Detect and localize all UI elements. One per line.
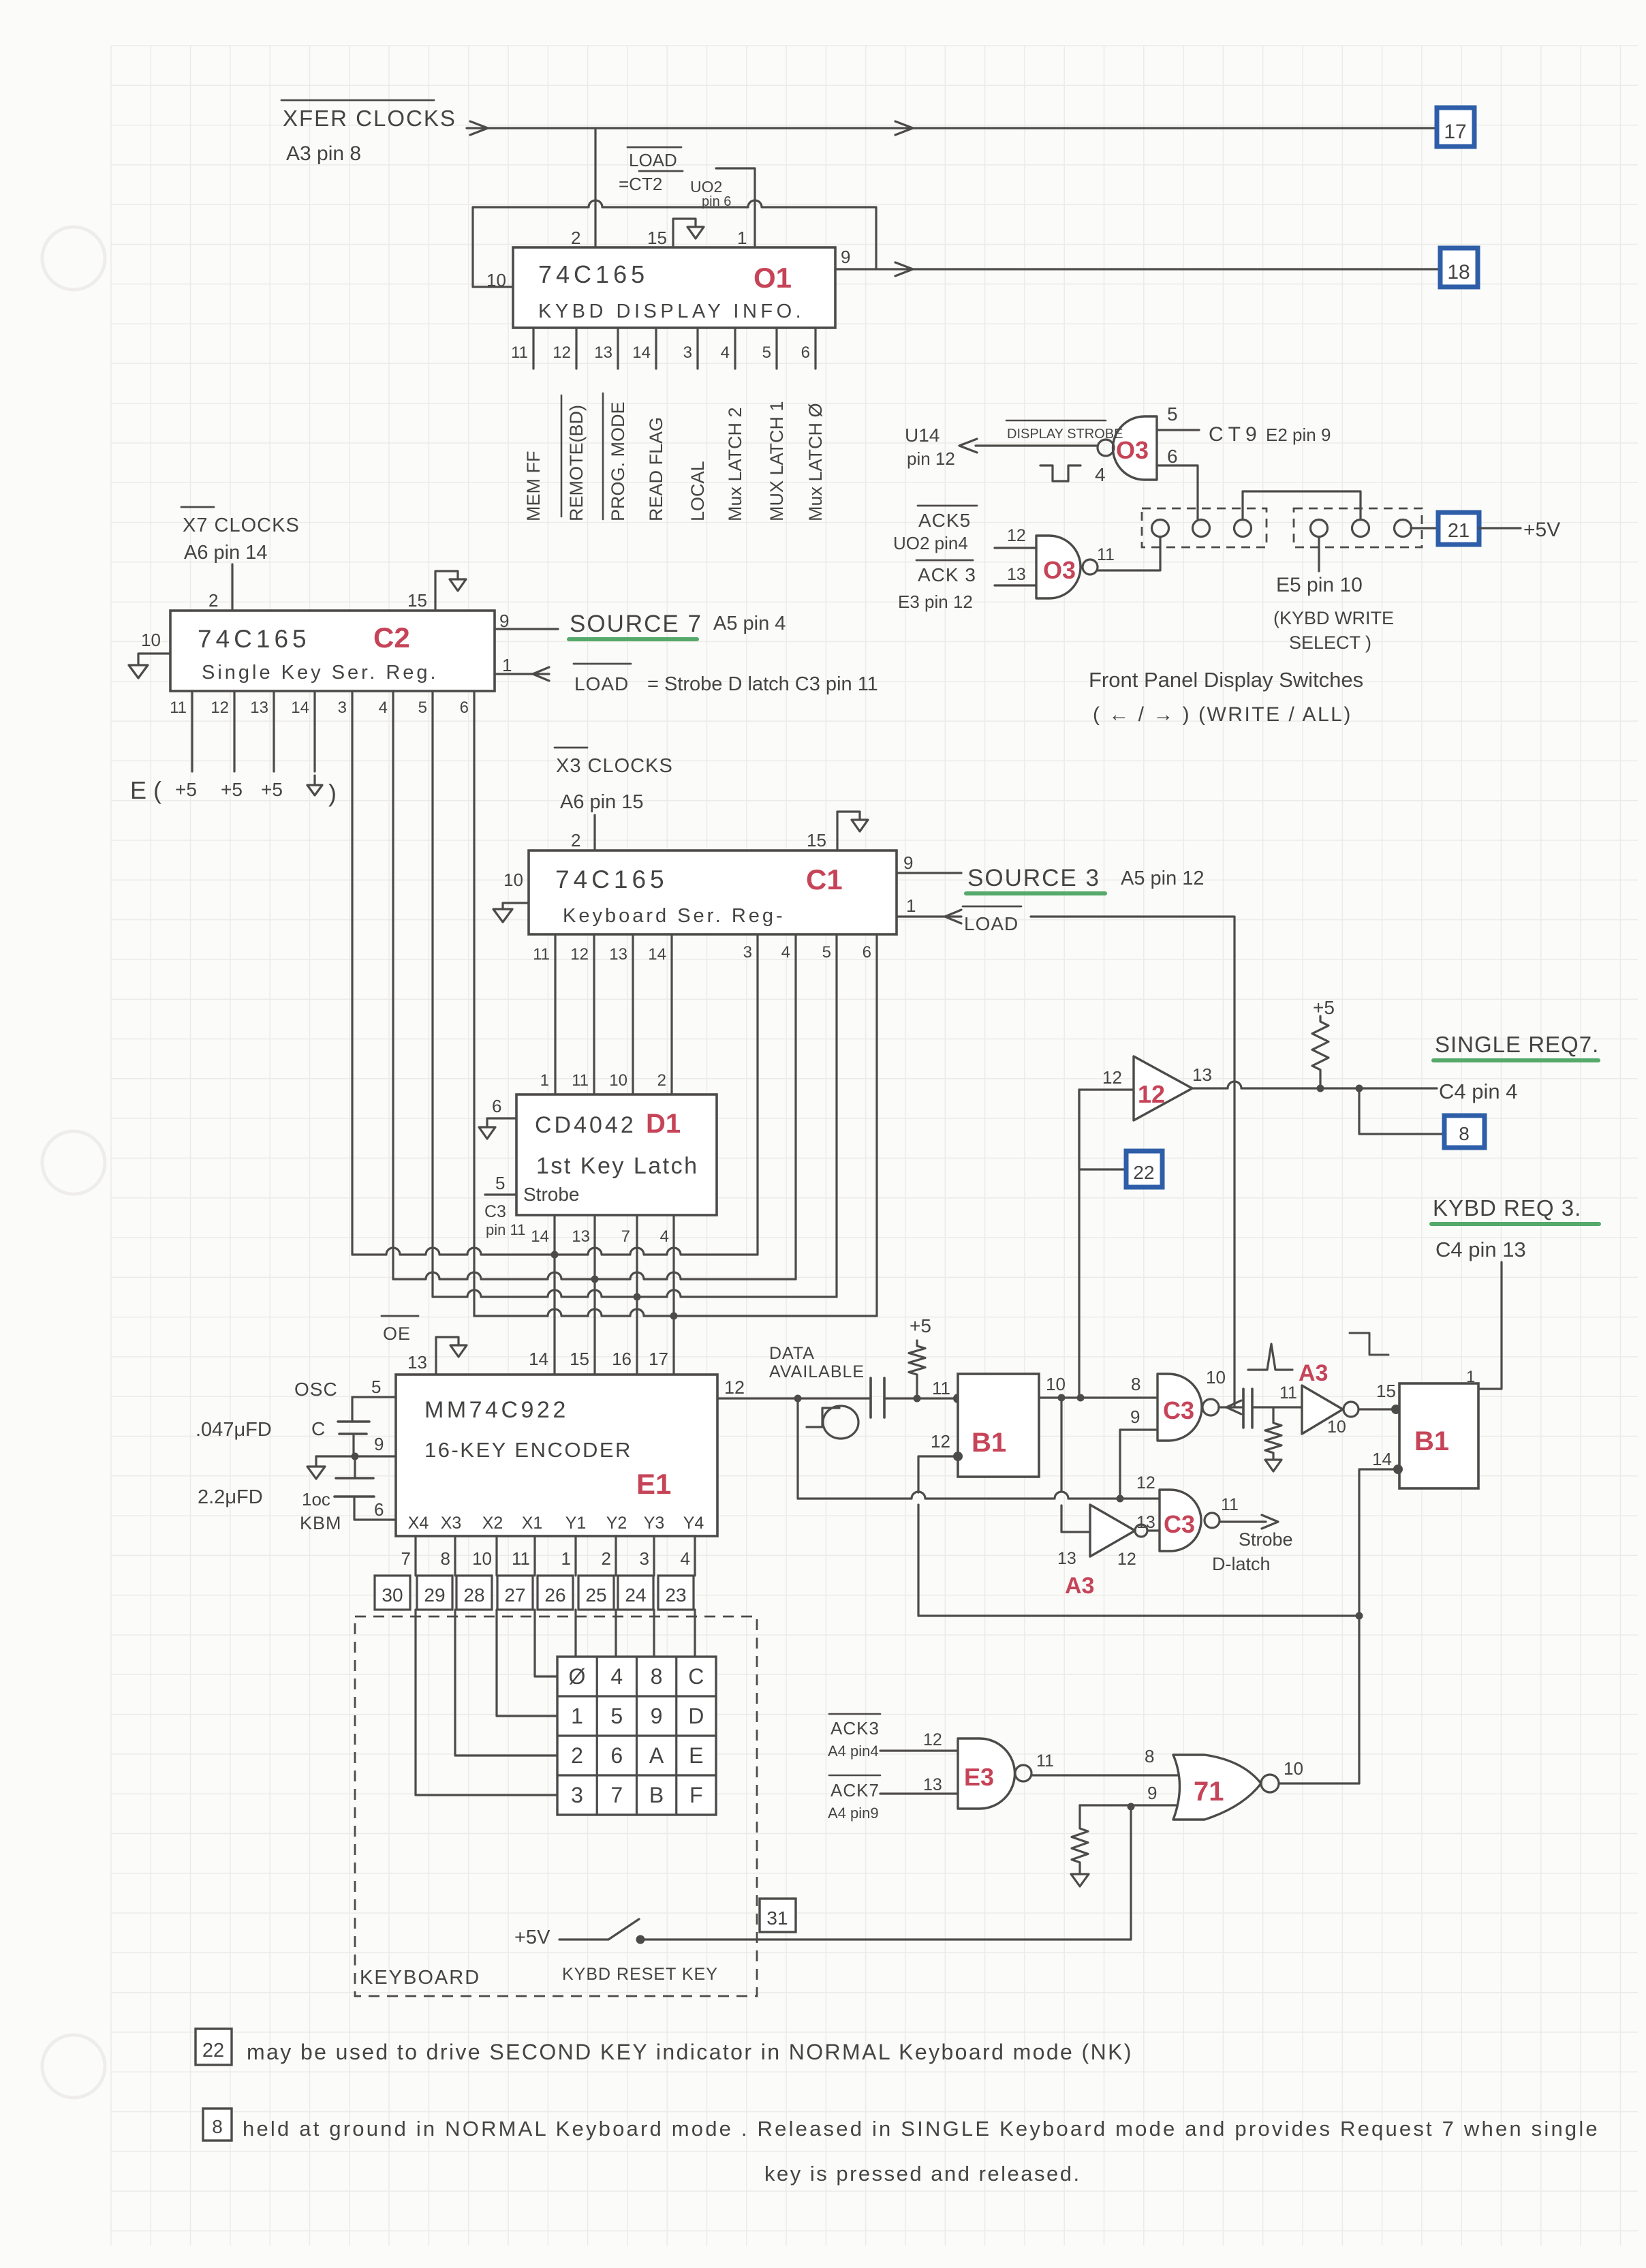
gate C3a NAND xyxy=(1158,1374,1202,1441)
E1 bottom pin stubs xyxy=(414,1536,416,1576)
wire switch to NOR pin9 net xyxy=(640,1938,1131,1940)
svg-text:OE: OE xyxy=(383,1323,411,1344)
svg-text:12: 12 xyxy=(931,1431,950,1452)
A3b output to C3b xyxy=(1147,1529,1160,1531)
svg-text:CD4042: CD4042 xyxy=(535,1112,636,1138)
svg-text:22: 22 xyxy=(1133,1162,1154,1183)
pulse symbol (low-going) xyxy=(1040,465,1081,481)
C1 pin 9 wire xyxy=(897,872,961,874)
svg-text:2: 2 xyxy=(657,1071,666,1090)
junction dot resistor/wire xyxy=(914,1395,921,1403)
connector 22 (blue) xyxy=(1126,1151,1162,1187)
svg-text:11: 11 xyxy=(1221,1495,1239,1514)
wire to connector 22 xyxy=(1079,1090,1126,1169)
svg-text:X7 CLOCKS: X7 CLOCKS xyxy=(183,515,300,536)
IC B1b box xyxy=(1399,1383,1478,1488)
svg-text:5: 5 xyxy=(371,1377,381,1397)
IC D1 CD4042 box xyxy=(516,1094,717,1215)
connector boxes 30-23 xyxy=(375,1576,410,1610)
switch contact dot xyxy=(636,1935,645,1944)
svg-text:1: 1 xyxy=(906,895,916,916)
svg-text:12: 12 xyxy=(1102,1067,1122,1088)
C1 pin 15 clear bracket xyxy=(837,812,860,850)
C2 bottom pin stubs 11-14 xyxy=(191,691,193,771)
svg-text:4: 4 xyxy=(1095,464,1106,485)
svg-text:13: 13 xyxy=(1057,1549,1076,1568)
svg-text:UO2: UO2 xyxy=(690,178,722,196)
svg-text:13: 13 xyxy=(407,1352,427,1373)
C1 pin 10 ground wire xyxy=(503,903,529,909)
wire O1 pin2 clock stub xyxy=(594,128,596,247)
svg-text:3: 3 xyxy=(338,699,347,717)
svg-text:13: 13 xyxy=(1007,565,1026,584)
C1 pin5 long wire xyxy=(835,934,837,1297)
bus wire 2 xyxy=(393,1272,796,1279)
svg-text:E: E xyxy=(689,1743,703,1768)
svg-text:2: 2 xyxy=(571,228,580,248)
svg-text:5: 5 xyxy=(610,1704,623,1728)
svg-text:5: 5 xyxy=(822,943,831,962)
keypad X2 wire xyxy=(497,1610,557,1716)
A3a output wire xyxy=(1358,1408,1399,1410)
svg-text:14: 14 xyxy=(1372,1449,1392,1469)
wire E1 pin12 down xyxy=(796,1398,798,1499)
C1 pin4 long wire xyxy=(794,934,796,1279)
svg-text:1: 1 xyxy=(540,1071,549,1090)
svg-text:13: 13 xyxy=(572,1227,590,1246)
label LOAD overline (C2) xyxy=(574,663,631,665)
svg-text:A3: A3 xyxy=(1065,1573,1094,1599)
C2 pin3 long wire xyxy=(351,691,353,1255)
bus wire 4 xyxy=(474,1309,877,1316)
C1 pin3 long wire xyxy=(756,934,758,1255)
svg-text:SINGLE REQ7.: SINGLE REQ7. xyxy=(1435,1032,1599,1057)
switch contact circle g1-3 xyxy=(1234,520,1252,537)
svg-text:10: 10 xyxy=(609,1071,627,1090)
svg-text:11: 11 xyxy=(512,1548,530,1569)
svg-text:2: 2 xyxy=(602,1548,611,1569)
O3a pin 5 wire xyxy=(1157,429,1199,431)
svg-text:+5V: +5V xyxy=(1523,519,1560,541)
svg-text:2: 2 xyxy=(571,1743,583,1768)
IC B1a box xyxy=(958,1374,1039,1477)
gate O3a NAND (left-facing) xyxy=(1113,416,1158,480)
svg-text:15: 15 xyxy=(570,1349,589,1369)
svg-text:16-KEY ENCODER: 16-KEY ENCODER xyxy=(424,1438,632,1462)
svg-text:14: 14 xyxy=(529,1349,548,1369)
svg-text:KYBD DISPLAY INFO.: KYBD DISPLAY INFO. xyxy=(538,301,805,322)
svg-text:1: 1 xyxy=(737,228,747,248)
svg-text:17: 17 xyxy=(1444,121,1466,143)
svg-text:7: 7 xyxy=(621,1227,630,1246)
svg-text:LOCAL: LOCAL xyxy=(687,461,708,521)
switch contact circle g2-2 xyxy=(1352,520,1369,537)
svg-text:Y2: Y2 xyxy=(606,1514,627,1533)
dashed KEYBOARD box xyxy=(355,1616,757,1996)
svg-text:C3: C3 xyxy=(484,1202,506,1221)
note box 22 xyxy=(196,2029,232,2065)
D1 pin 5 wire xyxy=(485,1193,516,1195)
wire switch g2-1 to E5 pin10 xyxy=(1318,537,1320,571)
svg-text:4: 4 xyxy=(721,343,730,362)
svg-text:29: 29 xyxy=(424,1584,445,1606)
svg-text:UO2 pin4: UO2 pin4 xyxy=(893,533,968,553)
svg-text:17: 17 xyxy=(649,1349,668,1369)
gate C3b NAND xyxy=(1160,1490,1201,1551)
wire connector 21 to +5V xyxy=(1479,527,1521,529)
svg-text:B: B xyxy=(649,1783,664,1807)
svg-text:3: 3 xyxy=(640,1548,649,1569)
svg-text:C4 pin 13: C4 pin 13 xyxy=(1435,1238,1526,1261)
svg-text:12: 12 xyxy=(1138,1080,1165,1108)
svg-text:A5 pin 12: A5 pin 12 xyxy=(1121,868,1205,889)
svg-text:13: 13 xyxy=(1192,1064,1212,1085)
svg-text:7: 7 xyxy=(610,1783,623,1807)
D1 pin 6 ground arrow xyxy=(479,1127,495,1139)
E1 pin 9 wire xyxy=(316,1455,396,1457)
label X3 CLOCKS overline xyxy=(555,747,587,749)
connector 18 (blue) xyxy=(1440,248,1478,287)
svg-text:14: 14 xyxy=(648,945,666,964)
svg-text:( ← / → ) (WRITE / ALL): ( ← / → ) (WRITE / ALL) xyxy=(1093,703,1352,726)
E3 pin 13 wire xyxy=(880,1792,958,1794)
svg-text:A4 pin4: A4 pin4 xyxy=(828,1743,879,1760)
svg-text:C3: C3 xyxy=(1163,1396,1194,1424)
svg-text:10: 10 xyxy=(472,1548,492,1569)
wire cap to A3a input xyxy=(1252,1406,1302,1408)
svg-text:pin 12: pin 12 xyxy=(907,448,955,469)
connector 21 (blue) xyxy=(1438,512,1479,545)
svg-text:key is pressed and released.: key is pressed and released. xyxy=(764,2162,1081,2186)
svg-text:ACK3: ACK3 xyxy=(830,1718,880,1738)
C2 pin 10 ground arrow xyxy=(129,665,148,678)
keypad Y1 wire xyxy=(574,1610,576,1657)
svg-text:1: 1 xyxy=(502,655,512,675)
svg-text:6: 6 xyxy=(374,1499,384,1520)
junction dot B1b pin14 xyxy=(1393,1465,1403,1474)
wire junction down to kybd reset xyxy=(1130,1807,1132,1940)
svg-text:8: 8 xyxy=(1131,1374,1140,1394)
D1 pin7 wire to E1 pin16 xyxy=(636,1215,638,1375)
svg-text:X3 CLOCKS: X3 CLOCKS xyxy=(556,755,673,777)
arrowhead into C2 pin1 xyxy=(533,667,549,681)
svg-text:3: 3 xyxy=(683,343,692,362)
svg-text:15: 15 xyxy=(407,590,427,611)
svg-text:4: 4 xyxy=(660,1227,669,1246)
junction dot bus3/D1 pin7 xyxy=(634,1293,641,1301)
svg-text:4: 4 xyxy=(681,1548,690,1569)
C3a output wire to cap xyxy=(1219,1406,1243,1408)
svg-text:): ) xyxy=(328,779,337,807)
green underline SINGLE REQ7 xyxy=(1433,1058,1598,1062)
IC C1 74C165 box xyxy=(529,850,897,934)
svg-text:8: 8 xyxy=(1459,1123,1470,1144)
debounce pulse symbol xyxy=(807,1408,839,1427)
svg-text:+5: +5 xyxy=(261,779,283,800)
arrowhead mid wire 17 xyxy=(895,121,913,135)
wire LOAD to C3a output xyxy=(1031,917,1234,1407)
svg-text:X4: X4 xyxy=(408,1514,429,1533)
label ACK3 overline xyxy=(916,560,973,562)
C2 pin6 long wire xyxy=(473,691,475,1316)
svg-text:C3: C3 xyxy=(1164,1510,1195,1538)
bracket wire linking switches xyxy=(1243,491,1361,519)
svg-text:Strobe: Strobe xyxy=(1239,1529,1293,1550)
junction dot 2199/C3a pin9 xyxy=(1117,1495,1124,1503)
svg-text:9: 9 xyxy=(374,1434,384,1454)
svg-text:held at ground in NORMAL Keybo: held at ground in NORMAL Keyboard mode .… xyxy=(243,2117,1600,2141)
svg-text:Strobe: Strobe xyxy=(523,1184,580,1205)
svg-text:9: 9 xyxy=(651,1704,663,1728)
wire O1 pin9 to connector 18 xyxy=(835,268,1440,270)
svg-text:E (: E ( xyxy=(130,776,161,804)
svg-text:15: 15 xyxy=(647,228,667,248)
svg-text:MM74C922: MM74C922 xyxy=(424,1397,569,1423)
svg-text:pin 11: pin 11 xyxy=(486,1221,525,1238)
svg-text:A3 pin 8: A3 pin 8 xyxy=(286,142,361,165)
svg-text:SELECT ): SELECT ) xyxy=(1289,632,1371,653)
svg-text:X2: X2 xyxy=(482,1514,503,1533)
svg-text:5: 5 xyxy=(418,699,427,717)
svg-text:6: 6 xyxy=(863,943,871,962)
junction dot caps/pin9 xyxy=(352,1453,359,1460)
junction dot bus2371 right xyxy=(1356,1612,1363,1620)
svg-text:14: 14 xyxy=(632,343,651,362)
svg-text:2: 2 xyxy=(208,590,218,611)
C1 pin 10 ground arrow xyxy=(493,909,512,922)
label ACK3 overline (E3) xyxy=(829,1713,880,1715)
svg-text:+5: +5 xyxy=(175,779,197,800)
wire B1b pin14 down to NOR output xyxy=(1359,1469,1398,1783)
step pulse symbol xyxy=(1350,1333,1388,1355)
O3b pin13 wire xyxy=(995,584,1036,586)
svg-text:Mux LATCH 2: Mux LATCH 2 xyxy=(725,407,745,521)
svg-text:6: 6 xyxy=(492,1096,501,1116)
IC C2 74C165 box xyxy=(170,611,495,691)
bus wire 3 xyxy=(433,1290,837,1297)
svg-text:= Strobe D latch C3 pin 11: = Strobe D latch C3 pin 11 xyxy=(647,673,878,695)
O3a pin 6 wire xyxy=(1157,465,1198,519)
svg-text:11: 11 xyxy=(511,343,528,362)
junction dot at B1a pin12 xyxy=(953,1452,963,1461)
gate E3 NAND xyxy=(958,1738,1015,1809)
label OE overline xyxy=(382,1315,418,1317)
resistor pullup B1a xyxy=(909,1340,925,1380)
svg-text:6: 6 xyxy=(1167,446,1178,467)
E1 pin 9 ground arrow xyxy=(315,1456,317,1467)
svg-text:pin 6: pin 6 xyxy=(702,194,731,209)
green underline SOURCE 3 xyxy=(966,891,1105,895)
svg-text:O3: O3 xyxy=(1043,556,1076,584)
green underline SOURCE 7 xyxy=(569,637,697,641)
svg-text:Ø: Ø xyxy=(569,1664,586,1689)
wire up to buffer 12 input xyxy=(1078,1090,1080,1398)
svg-text:C1: C1 xyxy=(806,863,843,895)
wire switch g1-1 to O3b output xyxy=(1098,537,1160,570)
svg-text:4: 4 xyxy=(781,943,790,962)
svg-text:3: 3 xyxy=(743,943,752,962)
C3b output wire strobe xyxy=(1220,1520,1266,1522)
svg-text:X3: X3 xyxy=(441,1514,462,1533)
svg-text:A3: A3 xyxy=(1299,1360,1328,1386)
svg-text:11: 11 xyxy=(572,1071,589,1090)
svg-text:11: 11 xyxy=(1036,1751,1054,1771)
E3 pin 12 wire xyxy=(880,1749,958,1751)
label ACK5 overline xyxy=(918,505,977,507)
wire B1a pin10 to C3a pin8 xyxy=(1039,1396,1158,1398)
svg-text:12: 12 xyxy=(211,699,229,717)
label ACK7 overline xyxy=(829,1775,880,1777)
svg-text:DISPLAY STROBE: DISPLAY STROBE xyxy=(1007,427,1123,442)
capacitor (data available) plates xyxy=(869,1378,872,1417)
svg-text:8: 8 xyxy=(212,2116,223,2137)
svg-text:A4 pin9: A4 pin9 xyxy=(828,1805,879,1822)
junction dot bus2/D1 pin13 xyxy=(591,1276,599,1283)
svg-text:30: 30 xyxy=(382,1584,403,1606)
switch lever xyxy=(608,1919,639,1940)
svg-text:Y1: Y1 xyxy=(565,1514,587,1533)
svg-text:7: 7 xyxy=(401,1548,411,1569)
svg-text:Keyboard Ser. Reg-: Keyboard Ser. Reg- xyxy=(563,905,786,927)
C2 pin 10 ground wire xyxy=(138,654,170,665)
svg-text:74C165: 74C165 xyxy=(198,625,311,653)
svg-text:X1: X1 xyxy=(522,1514,543,1533)
svg-text:E2 pin 9: E2 pin 9 xyxy=(1266,425,1331,445)
svg-text:Y4: Y4 xyxy=(683,1514,704,1533)
NOR71 pin9 wire xyxy=(1080,1804,1184,1806)
svg-text:A6 pin 14: A6 pin 14 xyxy=(184,542,268,564)
svg-text:5: 5 xyxy=(762,343,771,362)
keypad X4 wire xyxy=(416,1610,557,1795)
svg-text:A5 pin 4: A5 pin 4 xyxy=(713,613,786,634)
svg-text:E1: E1 xyxy=(636,1468,671,1500)
svg-text:LOAD: LOAD xyxy=(629,150,677,170)
wire C4pin13 to B1b pin1 xyxy=(1478,1262,1502,1389)
pulldown wire xyxy=(1272,1407,1274,1417)
svg-text:4: 4 xyxy=(379,699,388,717)
bus wire 2371 xyxy=(918,1614,1359,1616)
svg-text:SOURCE 7: SOURCE 7 xyxy=(570,611,702,637)
NOR71 output wire xyxy=(1279,1782,1359,1784)
svg-text:14: 14 xyxy=(531,1227,549,1246)
wire pin9 to resistor xyxy=(1078,1805,1081,1823)
keypad 4x4 grid xyxy=(557,1657,716,1815)
IC O1 74C165 box xyxy=(513,247,835,328)
wire cap to pin9 junction xyxy=(352,1434,354,1456)
svg-text:10: 10 xyxy=(1284,1758,1303,1779)
svg-text:8: 8 xyxy=(1145,1746,1154,1766)
E3 output wire xyxy=(1031,1774,1183,1776)
svg-text:=CT2: =CT2 xyxy=(619,174,662,194)
svg-text:Y3: Y3 xyxy=(644,1514,665,1533)
connector box 31 xyxy=(760,1899,796,1932)
svg-text:9: 9 xyxy=(841,247,850,267)
junction dot bus1/D1 pin14 xyxy=(551,1251,559,1259)
wire junction to cap2 xyxy=(354,1456,356,1478)
green underline KYBD REQ3 xyxy=(1431,1222,1599,1226)
svg-text:U14: U14 xyxy=(905,425,940,446)
svg-text:15: 15 xyxy=(1376,1381,1396,1401)
svg-text:.047μFD: .047μFD xyxy=(196,1419,272,1441)
svg-text:23: 23 xyxy=(665,1584,686,1606)
wire switch g2-3 to connector 21 xyxy=(1411,527,1438,529)
arrowhead on XFER CLOCKS wire xyxy=(470,121,488,135)
E1 pin 5 wire OSC xyxy=(352,1397,396,1422)
svg-text:LOAD: LOAD xyxy=(574,673,629,694)
wire +5V to switch xyxy=(559,1938,608,1940)
junction dot at B1a pin11 xyxy=(953,1394,963,1403)
svg-text:5: 5 xyxy=(495,1173,505,1193)
bus wire 2199 (strobe) xyxy=(798,1492,1160,1499)
svg-text:11: 11 xyxy=(932,1378,950,1398)
svg-text:OSC: OSC xyxy=(294,1379,338,1400)
svg-text:5: 5 xyxy=(1167,403,1178,425)
svg-text:10: 10 xyxy=(486,270,506,290)
junction dot B1b pin15 xyxy=(1391,1405,1401,1414)
svg-text:11: 11 xyxy=(1097,545,1115,564)
svg-text:71: 71 xyxy=(1194,1777,1224,1807)
svg-text:F: F xyxy=(689,1783,703,1807)
svg-text:74C165: 74C165 xyxy=(538,260,649,288)
C2 pin2 clock stub xyxy=(231,564,233,611)
svg-text:C: C xyxy=(688,1664,704,1689)
svg-text:KYBD RESET KEY: KYBD RESET KEY xyxy=(562,1965,718,1984)
svg-text:Single Key Ser. Reg.: Single Key Ser. Reg. xyxy=(202,662,439,684)
net label XFER CLOCKS overline xyxy=(281,99,434,102)
svg-text:74C165: 74C165 xyxy=(555,865,668,893)
wire buffer input xyxy=(1079,1088,1134,1090)
svg-text:A6 pin 15: A6 pin 15 xyxy=(560,791,644,813)
wire cap to B1a pin11 xyxy=(884,1397,958,1399)
svg-text:13: 13 xyxy=(594,343,612,362)
svg-text:D1: D1 xyxy=(646,1109,681,1139)
C2 pin4 long wire xyxy=(392,691,394,1279)
svg-text:B1: B1 xyxy=(1414,1426,1449,1456)
junction dot bus4/D1 pin4 xyxy=(670,1313,678,1320)
svg-text:AVAILABLE: AVAILABLE xyxy=(769,1362,865,1381)
E1 pin 13 clear bracket xyxy=(436,1337,459,1375)
svg-text:ACK 3: ACK 3 xyxy=(918,564,976,585)
C1 pin6 long wire xyxy=(875,934,878,1316)
D1 pin14 wire to E1 pin14 xyxy=(553,1215,555,1375)
gate A3a inverter xyxy=(1302,1385,1343,1434)
svg-text:ACK5: ACK5 xyxy=(918,510,971,531)
svg-text:Front Panel Display Switches: Front Panel Display Switches xyxy=(1089,668,1363,692)
svg-text:21: 21 xyxy=(1448,520,1470,542)
svg-text:26: 26 xyxy=(544,1584,565,1606)
switch contact circle g2-1 xyxy=(1311,520,1328,537)
svg-text:4: 4 xyxy=(610,1664,623,1689)
svg-text:+5V: +5V xyxy=(514,1927,550,1948)
wire UO2 pin6 to O1 pin1 xyxy=(716,168,755,247)
capacitor .047uFD plates xyxy=(338,1420,369,1423)
svg-text:24: 24 xyxy=(625,1584,646,1606)
svg-text:28: 28 xyxy=(463,1584,484,1606)
junction dot pin10 A xyxy=(1058,1394,1066,1402)
ground arrow pulldown xyxy=(1265,1460,1282,1471)
junction dot pin12/vertical xyxy=(794,1395,802,1403)
svg-text:REMOTE(BD): REMOTE(BD) xyxy=(566,405,587,521)
label LOAD =CT2 UO2 pin6 xyxy=(627,147,681,149)
svg-text:10: 10 xyxy=(1046,1374,1066,1394)
svg-text:+5: +5 xyxy=(221,779,243,800)
svg-text:1oc: 1oc xyxy=(302,1489,330,1510)
svg-text:XFER CLOCKS: XFER CLOCKS xyxy=(283,106,456,131)
wire buffer output SINGLE REQ7 xyxy=(1192,1082,1437,1088)
keypad Y3 wire xyxy=(653,1610,655,1657)
svg-text:MUX LATCH 1: MUX LATCH 1 xyxy=(766,401,787,521)
keypad X3 wire xyxy=(455,1610,557,1756)
